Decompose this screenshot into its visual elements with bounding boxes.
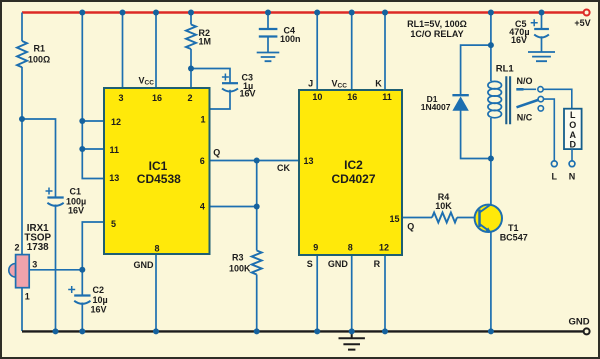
junction dots on +5V rail [79,10,544,16]
wire: IC2 pin9 [316,255,318,331]
wire: C3 branch to IC1 pin1 [191,69,230,110]
resistor R3 [252,251,262,275]
wire: T1 emitter to ground [490,232,492,331]
wire: IC1 pin8 ground [155,254,157,331]
svg-text:100K: 100K [229,263,251,273]
IR receiver IRX1 TSOP1738 [9,255,29,288]
label T1 [500,223,528,242]
bottom ground rail [22,330,584,332]
svg-text:10K: 10K [435,201,452,211]
svg-text:L: L [570,110,576,120]
svg-text:9: 9 [313,242,318,252]
svg-text:3: 3 [32,259,37,269]
diode D1 [452,95,468,111]
capacitor C3 [222,74,238,92]
label R2 [199,28,212,47]
ground symbol below C4 [257,53,280,62]
relay contact N/C [538,106,543,111]
svg-text:1: 1 [25,292,30,302]
junction dots on ground rail [53,328,494,334]
svg-text:C1: C1 [70,187,82,197]
svg-text:10µ: 10µ [93,295,108,305]
relay RL1 core [506,76,510,124]
wire: LOAD to N terminal [571,149,573,161]
svg-text:L: L [552,172,558,182]
svg-text:2: 2 [187,93,192,103]
svg-text:1C/O RELAY: 1C/O RELAY [410,29,463,39]
svg-text:N/C: N/C [517,112,533,122]
wire: R3 column / IC1 pin4 [210,161,257,332]
note RL1=5V [407,19,467,39]
terminal L [551,161,557,167]
wire: R1 column (rail to TSOP pin2) [21,13,23,255]
IC1 pin numbers [109,93,205,254]
svg-text:K: K [375,78,382,88]
svg-text:16: 16 [347,92,357,102]
terminal N [569,161,575,167]
wire: IC2 pin8 [351,255,353,331]
wire: IC1 Q to IC2 CK [210,160,300,162]
svg-text:3: 3 [118,93,123,103]
wire: R2 / IC1 pin2 [190,13,192,89]
svg-text:A: A [570,130,577,140]
svg-text:S: S [307,259,313,269]
wire: +5V rail [22,11,584,13]
label C2 [91,285,108,314]
svg-text:IC2: IC2 [344,158,363,172]
svg-text:+5V: +5V [574,18,590,28]
wire: D1 branch [461,45,491,158]
wire: C4 column [267,13,269,53]
svg-text:2: 2 [14,243,19,253]
label C5 [509,19,529,45]
wire: IC2 pin10 J [316,13,318,91]
capacitor C1 [46,188,64,206]
svg-text:1M: 1M [199,37,212,47]
svg-text:N/O: N/O [516,76,532,86]
wire: relay coil feed [490,13,492,159]
svg-text:N: N [569,172,576,182]
svg-text:4: 4 [200,202,205,212]
svg-text:16V: 16V [511,35,527,45]
svg-text:CD4538: CD4538 [137,172,181,186]
capacitor C5 [531,19,549,37]
svg-text:RL1: RL1 [496,63,515,74]
wire: T1 collector column [490,159,492,205]
svg-text:15: 15 [389,214,399,224]
capacitor C4 [259,29,278,37]
label C3 [240,73,256,99]
ground symbol below C5 [528,52,555,61]
wire: C1 branch [22,119,56,331]
svg-text:IC1: IC1 [149,159,168,173]
svg-text:RL1=5V, 100Ω: RL1=5V, 100Ω [407,19,467,29]
label IRX1 TSOP 1738 [24,223,51,253]
wire: TSOP pin1 [21,288,23,331]
svg-text:R: R [374,259,381,269]
svg-text:BC547: BC547 [500,232,528,242]
svg-text:8: 8 [348,242,353,252]
svg-text:16V: 16V [240,89,256,99]
resistor R4 [432,213,457,223]
label C1 [66,187,86,216]
svg-text:6: 6 [200,156,205,166]
IC1 box [104,88,210,254]
svg-text:11: 11 [382,92,392,102]
svg-text:CK: CK [277,163,290,173]
svg-text:8: 8 [154,243,159,253]
svg-text:GND: GND [568,316,589,327]
svg-text:5: 5 [111,219,116,229]
svg-text:1: 1 [200,114,205,124]
wire: C5 column [541,13,543,53]
wire: IC1 pin16 Vcc [155,13,157,89]
svg-text:10: 10 [312,92,322,102]
wire: IC1 pin3 [122,13,124,89]
wire: IC1 pins 12/11/13 feed [82,13,104,179]
wire: TSOP pin3 [29,269,82,271]
label R3 [229,253,251,274]
svg-text:16: 16 [152,93,162,103]
label D1 [421,94,451,112]
wire: IC1 pin5 / TSOP pin3 / C2 column [82,222,104,331]
junction dots mid circuit [19,42,494,273]
svg-text:16V: 16V [68,206,84,216]
svg-text:1738: 1738 [27,242,49,253]
svg-text:100Ω: 100Ω [28,55,50,65]
relay contact N/O [516,87,572,109]
IC1 title [137,159,181,186]
label R1 [28,44,50,65]
IC2 title [331,158,375,186]
relay contact pole [517,96,555,160]
svg-text:O: O [569,120,576,130]
svg-text:1N4007: 1N4007 [421,102,451,112]
relay RL1 coil [488,81,502,117]
label C4 [280,25,301,44]
ground symbol bottom center [339,331,365,349]
svg-text:13: 13 [303,156,313,166]
svg-text:Q: Q [407,222,414,232]
ground terminal circle [584,328,590,334]
svg-text:Q: Q [213,148,220,158]
svg-text:GND: GND [328,259,349,269]
wire: IC2 pin11 K [384,13,386,91]
transistor T1 [475,204,502,232]
svg-text:D: D [570,140,577,150]
label R4 [435,192,452,211]
wire: IC2 Q to R4 to T1 base [402,217,475,219]
svg-text:11: 11 [110,145,120,155]
svg-text:13: 13 [109,173,119,183]
svg-text:R1: R1 [34,44,46,54]
resistor R2 [186,25,196,49]
svg-text:R3: R3 [232,253,244,263]
svg-text:C2: C2 [93,285,105,295]
wire: IC2 pin12 [384,255,386,331]
LOAD box [564,109,582,150]
resistor R1 [17,41,27,67]
svg-text:GND: GND [134,260,155,270]
+5V terminal circle [584,10,590,16]
IC2 box [299,90,402,255]
svg-text:CD4027: CD4027 [331,172,375,186]
svg-text:100n: 100n [280,34,301,44]
wire: IC2 pin16 Vcc [351,13,353,91]
IC2 pin numbers [303,92,399,253]
svg-text:12: 12 [111,117,121,127]
capacitor C2 [68,286,90,304]
svg-text:12: 12 [379,242,389,252]
svg-text:J: J [308,78,313,88]
svg-text:16V: 16V [91,305,107,315]
